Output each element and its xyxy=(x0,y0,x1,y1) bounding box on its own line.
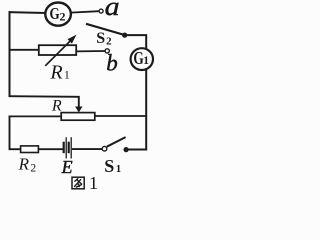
svg-text:R: R xyxy=(49,62,62,84)
switch S1 right contact xyxy=(124,147,129,152)
svg-text:b: b xyxy=(106,51,118,76)
wire S1 to bottom-right corner xyxy=(128,149,147,151)
wire left upper rail xyxy=(9,11,11,97)
potentiometer R wiper arrowhead xyxy=(75,107,82,113)
svg-text:E: E xyxy=(61,157,73,177)
wire R left lead xyxy=(9,115,62,117)
battery E xyxy=(64,137,71,158)
galvanometer G1 xyxy=(131,48,153,70)
rheostat R1 body xyxy=(39,45,76,55)
svg-text:S: S xyxy=(96,30,105,47)
wire R right lead xyxy=(95,115,146,117)
rheostat R1 arrow xyxy=(45,35,76,66)
wire R1 to contact b xyxy=(76,50,105,52)
svg-text:2: 2 xyxy=(30,163,36,175)
resistor R2 body xyxy=(21,146,39,153)
wire bottom to R2 xyxy=(9,148,21,150)
svg-text:S: S xyxy=(104,156,114,176)
switch S1 arm xyxy=(107,137,126,147)
wire top-left horizontal xyxy=(9,11,46,14)
wire left lower rail xyxy=(9,116,11,150)
wire battery to S1 xyxy=(72,148,102,150)
svg-text:a: a xyxy=(105,0,120,21)
label R1 xyxy=(49,62,70,84)
contact a terminal xyxy=(99,9,103,13)
label S2 xyxy=(96,30,112,48)
wire wiper row xyxy=(9,96,79,107)
svg-text:R: R xyxy=(51,98,62,115)
wire G2 to contact a xyxy=(71,11,99,12)
potentiometer R body xyxy=(61,113,95,121)
wire R2 to battery xyxy=(38,148,63,150)
svg-text:1: 1 xyxy=(143,55,149,67)
svg-text:1: 1 xyxy=(89,173,98,193)
caption figure 1 ideogram xyxy=(72,177,84,189)
label R2 xyxy=(18,154,37,174)
svg-text:R: R xyxy=(18,154,30,173)
svg-text:1: 1 xyxy=(116,164,121,175)
label S1 xyxy=(104,156,121,176)
switch S2 arm xyxy=(86,24,125,35)
switch S2 pole junction xyxy=(122,33,127,38)
svg-text:2: 2 xyxy=(106,36,112,48)
galvanometer G2 xyxy=(45,3,71,26)
svg-text:G: G xyxy=(50,4,60,23)
wire right rail lower xyxy=(145,69,147,150)
svg-text:2: 2 xyxy=(60,10,66,24)
switch S1 left contact xyxy=(102,146,107,151)
svg-text:1: 1 xyxy=(64,70,70,82)
wire row2 left xyxy=(9,49,39,51)
wire S2 pole to right rail xyxy=(126,35,147,50)
contact b terminal xyxy=(105,49,109,53)
